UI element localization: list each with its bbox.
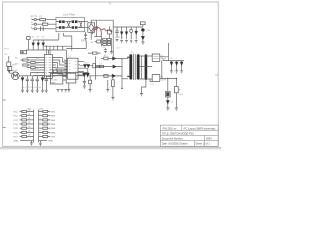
wire J2 stub — [10, 71, 12, 74]
wire U1 row4 link — [55, 64, 56, 66]
wire drop mid2 — [53, 46, 55, 50]
wire U3 vstub a — [53, 70, 55, 74]
ground bus g1 — [21, 90, 24, 92]
wire U2 right row1 — [80, 60, 84, 62]
wire RL3 leads — [20, 119, 34, 121]
node dot out2 — [167, 78, 168, 79]
transformer T1 primary winding — [129, 54, 132, 79]
resistor R12 — [93, 52, 97, 54]
wire L4 out — [160, 77, 177, 79]
IC U1 left pin stubs — [42, 58, 44, 76]
wire M1 to bus — [20, 75, 66, 77]
wire drop U1 top b — [49, 46, 51, 54]
wire U2 row5 out — [80, 74, 83, 76]
red annotation tail — [100, 29, 103, 36]
ground D4e — [141, 42, 144, 44]
wire U1 pin row 7 — [30, 73, 42, 76]
aux hline node b — [57, 46, 58, 47]
wire RR1 leads — [39, 111, 50, 113]
svg-text:D1: D1 — [32, 37, 34, 39]
varistor RV1 — [41, 27, 44, 31]
ground output 1 — [170, 71, 173, 73]
diode D10a — [170, 61, 172, 71]
wire row1 mid — [108, 57, 122, 59]
resistor RR4 — [43, 123, 48, 125]
diode D10b — [176, 61, 178, 71]
resistor R4b — [23, 64, 28, 66]
choke L2 winding a — [72, 20, 78, 23]
ground D3t — [135, 41, 138, 43]
svg-text:C5 D5 C6: C5 D5 C6 — [115, 37, 123, 39]
ground TP1 — [7, 70, 10, 72]
wire row3 — [108, 75, 122, 77]
svg-text:C R: C R — [151, 84, 155, 86]
title block vdivider row1 — [181, 125, 183, 131]
ground bus g2 — [26, 90, 29, 92]
diode D1 triangle — [121, 32, 123, 35]
wire U1 pin row 2 — [28, 59, 42, 61]
wire bridge feed to cluster — [94, 36, 102, 38]
wire output bus — [163, 59, 184, 61]
wire cluster left rail — [102, 37, 103, 47]
wire RL2 leads — [20, 115, 34, 117]
ground trio 1 — [57, 90, 60, 92]
svg-text:Document Number:: Document Number: — [162, 137, 184, 140]
wire bridge plus up — [91, 20, 96, 23]
node circle X1 — [130, 30, 133, 33]
frame tick right mid — [215, 74, 218, 76]
svg-text:2k: 2k — [28, 114, 30, 116]
wire RV1 to filter — [43, 28, 56, 30]
wire U3 vstub b — [57, 70, 59, 74]
choke L2 winding b — [72, 26, 78, 29]
capacitor C13 — [31, 76, 34, 90]
ground mid 2 — [106, 90, 109, 92]
diode D11 — [167, 101, 170, 104]
IC U1 body — [44, 54, 52, 78]
resistor R4 hang — [108, 30, 112, 34]
wire R1 to bus — [142, 25, 144, 27]
IC U1 pin text column — [45, 58, 46, 76]
IC U2 body — [67, 58, 78, 79]
wire N lead — [32, 23, 43, 25]
ground bus g3 — [31, 90, 34, 92]
wire row2 — [104, 66, 122, 68]
svg-text:2004: 2004 — [206, 137, 212, 140]
svg-text:R8: R8 — [104, 55, 106, 57]
ground reg 1 — [166, 108, 169, 110]
line filter box FL1 — [56, 17, 85, 31]
resistor R14b — [100, 65, 104, 67]
wire cluster right rail — [110, 38, 113, 52]
resistor R3 — [23, 59, 28, 61]
ground trio 3 — [64, 90, 67, 92]
svg-text:GND: GND — [48, 140, 53, 142]
svg-text:400V: 400V — [116, 47, 121, 49]
resistor R23 on row3 — [31, 62, 36, 64]
wire CN left gnd stem — [31, 141, 33, 143]
wire aux bus — [25, 49, 27, 51]
fuse F1 — [40, 19, 46, 21]
wire R16 down — [175, 93, 177, 108]
svg-text:GND: GND — [13, 140, 18, 142]
resistor RL2 — [22, 115, 27, 117]
capacitor C15 — [45, 76, 48, 90]
IC U1 right pin stubs — [52, 58, 54, 76]
ground CY1 — [84, 39, 87, 41]
diode pair D15 — [86, 73, 89, 76]
wire aux bus drop — [48, 50, 50, 54]
wire TP1 down — [8, 67, 10, 71]
wire filter to bridge bottom — [85, 27, 89, 29]
thermistor RT1 — [42, 23, 47, 25]
IC U2 left pin ticks — [66, 60, 68, 75]
ground bus g5 — [41, 90, 44, 92]
L3 interior marks — [153, 56, 158, 58]
diode D3 — [32, 43, 34, 46]
resistor R7 — [103, 41, 107, 43]
left edge test point TP1 — [8, 56, 10, 62]
resistor R1 top — [140, 22, 145, 25]
wire secondary tap mid — [141, 56, 143, 79]
wire reg rail 1 — [167, 78, 169, 91]
diode D2 — [126, 27, 128, 39]
wire U3 vstub c — [60, 70, 62, 74]
inductor L3 box — [152, 54, 160, 61]
wire RL5 leads — [20, 127, 34, 129]
wire U2 row3 out — [80, 68, 88, 73]
wire CN row8 left — [20, 140, 33, 142]
IC U1 pin name column — [49, 58, 52, 76]
wire U1 row6 — [54, 69, 57, 71]
resistor RR2 — [43, 115, 48, 117]
wire U2 right rail — [95, 56, 97, 79]
diode D2 triangle — [125, 32, 127, 35]
ground under U3 — [68, 83, 70, 90]
wire U1 row1 to U2 — [55, 58, 67, 63]
wire drop right — [71, 46, 73, 50]
svg-text:A1: A1 — [36, 61, 38, 64]
diode D21 — [113, 65, 116, 68]
choke L1 winding a — [59, 20, 65, 23]
wire RR3 leads — [39, 119, 50, 121]
ground output 3 — [180, 71, 183, 73]
wire E lead — [32, 28, 41, 30]
title block hline 1 — [160, 130, 218, 132]
bulk cap C4e body — [141, 28, 144, 31]
wire R17 gnd link — [112, 87, 114, 98]
wire R17 top — [112, 76, 114, 80]
svg-text:SW4: SW4 — [50, 124, 56, 126]
svg-text:SW3: SW3 — [50, 120, 56, 122]
wire under transformer — [121, 79, 123, 88]
ground trio 2 — [60, 90, 63, 92]
resistor RR6 — [43, 131, 48, 133]
wire HV bus top — [97, 20, 143, 27]
wire RL1 leads — [20, 111, 34, 113]
wire filter to bridge top — [85, 21, 89, 23]
aux hline lower — [26, 49, 66, 51]
bottom scan smudge — [0, 147, 221, 149]
diode pair D14 — [83, 73, 86, 76]
connector J1 pin N — [34, 23, 36, 25]
svg-text:5k: 5k — [28, 126, 30, 128]
capacitor CX1 — [67, 22, 70, 28]
resistor RL5 — [22, 127, 27, 129]
wire filter internal top — [56, 21, 85, 23]
wire U2 to U1 row e — [64, 71, 67, 74]
Y-cap CY1 — [84, 32, 87, 38]
wire U2 to U1 row b — [64, 62, 67, 65]
svg-text:SW5: SW5 — [50, 128, 56, 130]
wire CN right gnd stem — [39, 141, 41, 144]
capacitor C1 — [115, 27, 118, 38]
transformer secondary tap wires — [140, 56, 153, 79]
wire U3 feed left — [47, 75, 50, 78]
svg-text:A2: A2 — [36, 66, 38, 69]
wire R11 left — [95, 41, 97, 43]
transformer T1 secondary winding — [137, 54, 140, 79]
wire filter to right rail — [64, 33, 72, 46]
svg-text:D3: D3 — [42, 37, 44, 39]
wire RR4 leads — [39, 123, 50, 125]
wire CN row8 right — [39, 140, 47, 142]
U4 dark fill — [166, 92, 169, 96]
ground C1 — [116, 40, 119, 42]
connector J1 pin E — [34, 28, 36, 30]
svg-text:SW1: SW1 — [50, 111, 56, 113]
svg-text:A3: A3 — [36, 71, 38, 74]
svg-text:C6: C6 — [99, 63, 101, 65]
wire RL6 leads — [20, 131, 34, 133]
resistor R8 — [107, 41, 111, 43]
svg-text:D4 C7 C8 C9 D5 C10: D4 C7 C8 C9 D5 C10 — [22, 87, 42, 89]
capacitor CX2 — [80, 22, 82, 28]
diode D20 — [113, 57, 116, 60]
wire row1 left — [101, 57, 104, 59]
diode D3t — [135, 27, 137, 39]
wire opto bottom — [89, 76, 91, 90]
node dot out3 — [176, 78, 177, 79]
diode pair D7 — [87, 65, 90, 68]
resistor R16 — [175, 86, 179, 92]
title block vdivider sheet a — [194, 140, 196, 146]
ground C16 — [83, 86, 86, 88]
wire x86 drop — [66, 41, 86, 49]
svg-text:Line Filter: Line Filter — [63, 13, 75, 17]
svg-text:REF: REF — [51, 82, 56, 84]
wire U4 down — [167, 97, 169, 108]
inductor L4 box — [152, 75, 160, 82]
connector J1 pin L — [34, 19, 36, 21]
ground mid 1 — [89, 90, 92, 92]
frame tick top mid — [109, 2, 111, 5]
wire output downlink — [161, 60, 163, 78]
wire C4e down — [142, 32, 144, 37]
aux hline node a — [46, 46, 47, 47]
wire U1 pin row 4 — [28, 64, 42, 66]
M1 letters — [14, 74, 18, 78]
diode D12 — [21, 78, 24, 81]
wire primary top link — [122, 57, 128, 59]
wire U1 row3 to U2 — [55, 63, 67, 69]
svg-text:3k: 3k — [28, 118, 30, 120]
wire RL7 leads — [20, 136, 34, 138]
diode D5 — [42, 43, 44, 46]
resistor R14a — [95, 65, 99, 67]
wire U1 row2 to U2 — [55, 60, 67, 65]
wire aux taps from filter — [33, 33, 59, 40]
title block vdivider sheet b — [203, 140, 205, 146]
wire rail x96 — [96, 20, 98, 36]
red annotation scribble — [92, 27, 112, 34]
ground D1 — [120, 41, 123, 43]
svg-text:SW7: SW7 — [50, 136, 56, 138]
svg-text:R9: R9 — [103, 47, 105, 49]
wire aux drop 1 — [28, 40, 43, 50]
transformer T1 aux winding — [145, 54, 148, 80]
ground reg 2 — [175, 108, 178, 110]
svg-text:BR1: BR1 — [81, 39, 87, 43]
title block hline 2 — [160, 135, 218, 137]
svg-text:1k: 1k — [28, 110, 30, 112]
bridge BR1 diamond — [89, 24, 94, 32]
supervisor U3 box — [50, 73, 62, 84]
wire mid2 — [107, 80, 109, 89]
title block outline — [160, 125, 218, 146]
ground U5 — [67, 90, 70, 92]
TP1 box — [7, 62, 11, 67]
frame tick left mid — [3, 99, 6, 101]
wire rail to transformer — [96, 65, 105, 67]
wire U1 row7 to U2 — [55, 73, 67, 75]
resistor R15 — [104, 75, 108, 78]
wire opto out — [76, 76, 111, 80]
resistor RR3 — [43, 119, 48, 121]
wire R3 left — [20, 59, 22, 61]
capacitor C14 — [36, 76, 39, 90]
wire U1 row5 to U2 — [55, 68, 67, 72]
svg-text:SW2: SW2 — [50, 116, 56, 118]
wire U2 to U1 row a — [64, 59, 67, 60]
ground bus g4 — [36, 90, 39, 92]
resistor R2 — [21, 51, 27, 54]
wire RR2 leads — [39, 115, 50, 117]
wire D4e down — [142, 40, 144, 43]
wire RR6 leads — [39, 131, 50, 133]
capacitor C12 — [26, 76, 29, 90]
wire U1 pin row 5 — [26, 67, 42, 69]
R2 dark dot — [21, 51, 23, 53]
wire L3 out — [160, 43, 169, 61]
wire aux feedback — [150, 78, 152, 81]
svg-text:10uH: 10uH — [161, 58, 166, 60]
wire drop U1 top a — [46, 46, 48, 54]
wire fuse to filter — [45, 19, 56, 21]
frame tick left upper — [3, 127, 6, 129]
svg-text:7k: 7k — [28, 135, 30, 137]
primary winding stub top — [127, 56, 129, 58]
resistor R21 on opto wire — [89, 80, 92, 84]
svg-text:D6 D7: D6 D7 — [84, 63, 89, 65]
svg-text:SW6: SW6 — [50, 132, 56, 134]
resistor R13 — [104, 57, 108, 60]
bridge BR1 — [88, 23, 95, 33]
wire U2 to U1 row c — [64, 65, 67, 67]
svg-text:Sheet 1: Sheet 1 — [196, 143, 205, 146]
ground bus g6 — [45, 90, 48, 92]
ground CN right — [39, 143, 42, 145]
wire diode pair row — [80, 65, 93, 67]
connector J2 box — [8, 66, 12, 70]
ground X1 — [130, 40, 133, 42]
svg-text:of 1: of 1 — [206, 143, 211, 146]
capacitor C4 — [104, 48, 107, 53]
ground output 2 — [175, 71, 178, 73]
wire U1 pin row 1 — [26, 57, 42, 59]
resistor R6 — [107, 39, 111, 41]
ground D2 — [125, 41, 128, 43]
wire R4 stems — [109, 26, 111, 38]
wire reg rail 2 — [175, 78, 177, 86]
svg-text:6k: 6k — [28, 131, 30, 133]
wire drop mid3 — [62, 46, 64, 50]
svg-text:TL431: TL431 — [51, 79, 58, 81]
resistor RL6 — [22, 131, 27, 133]
resistor RL1 — [22, 110, 27, 112]
svg-text:4k: 4k — [28, 122, 30, 124]
wire X1 — [130, 27, 132, 39]
node dot under transformer — [121, 88, 123, 90]
ground CN left — [30, 143, 33, 145]
wire primary left terminal — [121, 58, 123, 78]
wire RT1 to filter — [48, 23, 56, 25]
primary winding stub bottom — [127, 75, 129, 77]
diode D13 — [41, 78, 44, 81]
ground cluster — [110, 52, 113, 54]
resistor R11 — [97, 40, 101, 43]
svg-text:A0: A0 — [36, 56, 38, 59]
wire U3-U5 — [63, 76, 66, 80]
resistor RR7 — [43, 135, 48, 137]
wire R12 leads — [88, 52, 101, 54]
svg-text:TITLE: SWITCH MODE PSU: TITLE: SWITCH MODE PSU — [162, 132, 194, 135]
fan motor M1 circle — [12, 72, 20, 80]
resistor R30 — [27, 37, 30, 40]
transformer T1 core lines — [134, 54, 136, 80]
resistor RL7 — [22, 135, 27, 137]
capacitor C16 — [83, 80, 86, 86]
wire U1 pin row 6 — [30, 69, 42, 71]
svg-text:IC31: IC31 — [51, 76, 56, 78]
wire bridge minus down — [90, 32, 92, 40]
wire drop mid — [57, 46, 59, 50]
svg-text:P.C Layout SMPS schematic: P.C Layout SMPS schematic — [184, 127, 217, 130]
choke L1 winding b — [59, 26, 65, 29]
diode pair D6 — [84, 65, 87, 68]
title block vdivider REV — [204, 136, 206, 141]
svg-text:D2: D2 — [37, 37, 39, 39]
connector CN1 spine left — [33, 110, 35, 142]
diode D1 — [121, 27, 123, 39]
wire RR7 leads — [39, 136, 50, 138]
diode D3t triangle — [135, 31, 137, 34]
resistor RL3 — [22, 119, 27, 121]
wire L lead — [32, 19, 40, 21]
IC U2 right pin ticks — [78, 61, 80, 75]
wire U1 pin row 3 — [26, 62, 42, 64]
resistor RR1 — [43, 110, 48, 112]
